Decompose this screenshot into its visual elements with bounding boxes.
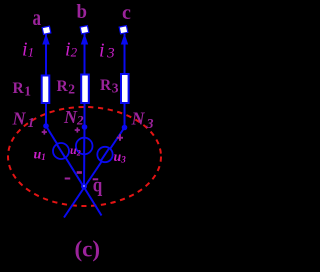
node N2 junction dot — [82, 124, 88, 130]
resistor R3 body — [121, 74, 129, 103]
plus sign source u3 — [117, 134, 123, 141]
plus sign source u1 — [42, 129, 47, 134]
wire branch a (terminal to resistor) — [45, 34, 47, 76]
label a — [33, 5, 42, 30]
node N1 junction dot — [43, 123, 49, 129]
svg-text:c: c — [122, 2, 131, 24]
label u1 — [34, 148, 46, 163]
label b — [77, 1, 88, 23]
arrowhead current i3 — [121, 34, 128, 45]
arrowhead current i1 — [42, 34, 49, 45]
terminal a — [42, 26, 51, 34]
svg-text:N3: N3 — [131, 109, 154, 133]
wire branch a below resistor — [45, 103, 47, 126]
svg-text:b: b — [77, 1, 88, 23]
label R2 — [57, 78, 76, 97]
minus sign source u2 — [77, 171, 82, 174]
svg-text:i2: i2 — [65, 39, 78, 61]
arrowhead current i2 — [81, 34, 88, 45]
source u3 circle — [97, 147, 112, 162]
wire branch b (terminal to resistor) — [84, 34, 86, 76]
resistor R1 body — [42, 76, 50, 104]
terminal c — [119, 26, 128, 34]
svg-text:R1: R1 — [13, 80, 32, 99]
svg-text:a: a — [33, 5, 42, 30]
node N3 junction dot — [122, 125, 128, 131]
minus sign source u1 — [65, 178, 71, 180]
label c — [122, 2, 131, 24]
svg-text:N1: N1 — [12, 109, 35, 132]
source u2 circle — [76, 138, 93, 155]
label i2 — [65, 39, 78, 61]
plus sign source u2 — [75, 127, 80, 132]
svg-text:i3: i3 — [99, 40, 115, 62]
svg-text:N2: N2 — [63, 107, 84, 128]
label i1 — [22, 39, 34, 61]
svg-text:u1: u1 — [34, 148, 46, 163]
terminal b — [80, 26, 89, 34]
label R3 — [100, 77, 119, 96]
wire N3 to node q (through source u3) — [64, 128, 125, 218]
wire branch b below resistor — [84, 103, 86, 127]
caption (c) — [75, 237, 101, 262]
label node N3 — [131, 109, 154, 133]
svg-text:R2: R2 — [57, 78, 76, 97]
wire N2 to node q (through source u2) — [83, 127, 86, 187]
dashed source-region ellipse — [8, 107, 161, 206]
svg-text:q: q — [93, 175, 103, 197]
svg-text:(c): (c) — [75, 237, 101, 262]
svg-text:u3: u3 — [114, 150, 127, 165]
svg-text:R3: R3 — [100, 77, 119, 96]
label node q — [93, 175, 103, 197]
source u1 circle — [53, 143, 69, 159]
node q junction dot — [81, 184, 87, 190]
wire N1 to node q (through source u1) — [46, 126, 102, 216]
label R1 — [13, 80, 32, 99]
label node N2 — [63, 107, 84, 128]
label node N1 — [12, 109, 35, 132]
resistor R2 body — [81, 75, 89, 104]
wire branch c below resistor — [124, 103, 126, 128]
svg-text:i1: i1 — [22, 39, 34, 61]
wire branch c (terminal to resistor) — [124, 34, 126, 76]
minus sign source u3 — [93, 178, 99, 180]
label u3 — [114, 150, 127, 165]
label u2 — [70, 143, 81, 158]
label i3 — [99, 40, 115, 62]
